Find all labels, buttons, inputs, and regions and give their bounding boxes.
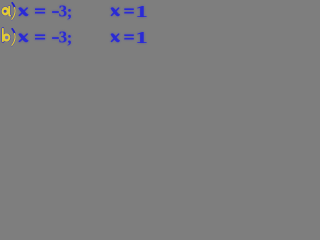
soft blue glow under text (18, 2, 147, 47)
label b) (2, 28, 15, 45)
label a) (1, 3, 15, 20)
